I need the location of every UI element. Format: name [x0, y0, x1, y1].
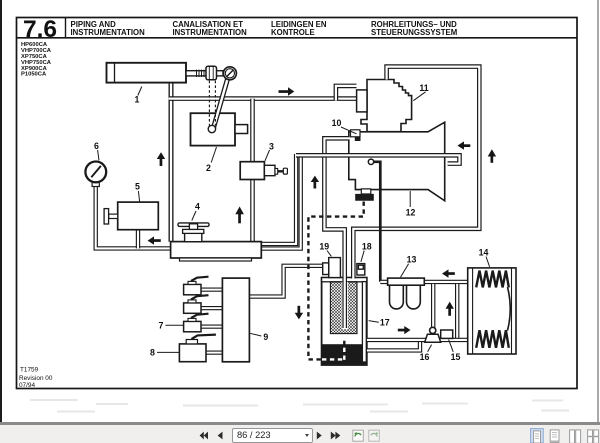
- svg-text:8: 8: [150, 348, 155, 358]
- svg-text:12: 12: [406, 208, 416, 218]
- svg-text:STEUERUNGSSYSTEM: STEUERUNGSSYSTEM: [371, 28, 457, 37]
- svg-text:14: 14: [479, 248, 489, 258]
- svg-text:07/94: 07/94: [19, 382, 35, 389]
- svg-text:INSTRUMENTATION: INSTRUMENTATION: [71, 28, 146, 37]
- svg-text:11: 11: [419, 83, 428, 93]
- svg-text:4: 4: [195, 202, 200, 212]
- svg-text:13: 13: [407, 255, 417, 265]
- svg-text:T1759: T1759: [20, 367, 39, 374]
- svg-text:INSTRUMENTATION: INSTRUMENTATION: [173, 28, 248, 37]
- svg-text:5: 5: [135, 182, 140, 192]
- svg-text:6: 6: [94, 141, 99, 151]
- svg-text:7.6: 7.6: [23, 16, 57, 43]
- svg-text:17: 17: [380, 318, 390, 328]
- svg-text:19: 19: [319, 242, 329, 252]
- svg-text:3: 3: [269, 142, 274, 152]
- svg-text:P1050CA: P1050CA: [21, 72, 47, 78]
- svg-text:7: 7: [159, 321, 164, 331]
- svg-text:16: 16: [420, 352, 430, 362]
- svg-text:10: 10: [332, 118, 342, 128]
- svg-text:15: 15: [451, 352, 461, 362]
- svg-text:KONTROLE: KONTROLE: [271, 28, 315, 37]
- svg-text:9: 9: [263, 332, 268, 342]
- svg-text:2: 2: [206, 163, 211, 173]
- svg-text:18: 18: [362, 242, 372, 252]
- svg-text:1: 1: [135, 95, 140, 105]
